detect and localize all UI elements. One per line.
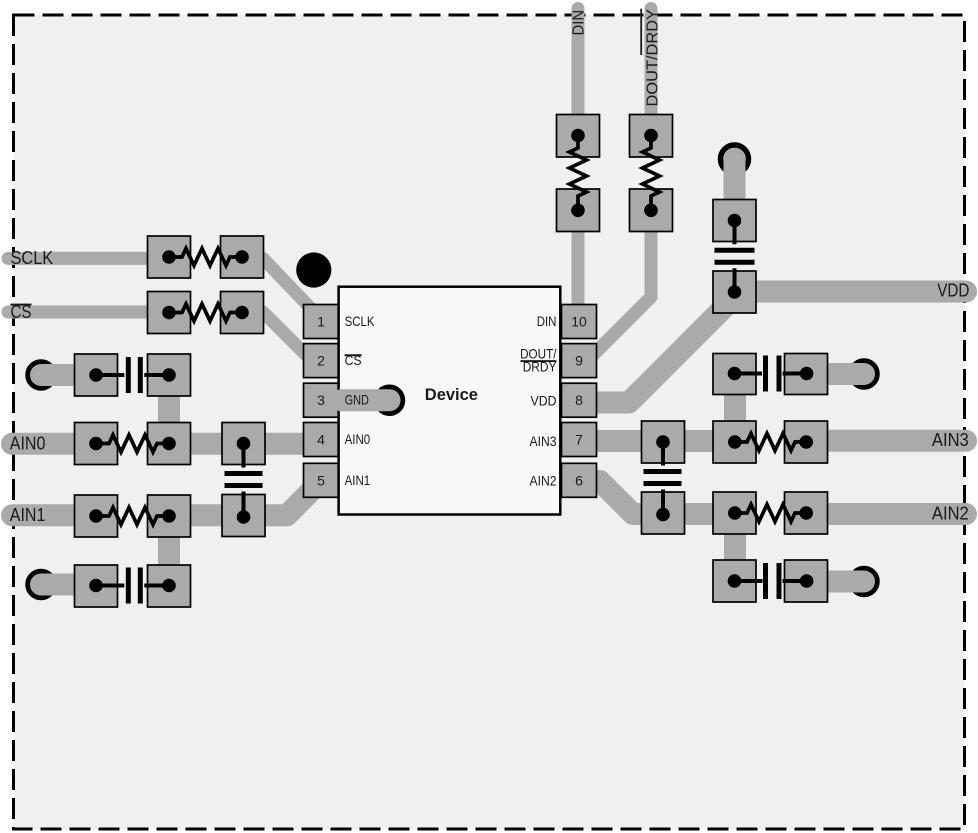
wire pin 7 to AIN3 resistor <box>580 430 740 452</box>
wire VDD out <box>735 281 967 303</box>
wire SCLK entry <box>8 252 170 265</box>
wire left cap1 to AIN0 resistor <box>158 375 180 444</box>
capacitor C2 pads (left bottom) <box>75 565 118 607</box>
wire pin 6 to AIN2 line <box>580 481 740 514</box>
via right-bottom <box>851 569 877 595</box>
svg-text:AIN3: AIN3 <box>530 433 557 449</box>
wire CS diagonal to pin 2 <box>242 312 318 367</box>
via VDD top <box>721 145 749 173</box>
resistor R2 terminal dots <box>162 306 249 320</box>
net labels <box>10 248 970 525</box>
wire AIN1 to pin 5 <box>169 485 317 515</box>
svg-text:3: 3 <box>317 392 325 408</box>
svg-text:VDD: VDD <box>531 392 557 408</box>
pin 2 pad <box>304 344 339 378</box>
pin 9 pad <box>562 344 597 378</box>
wire AIN2 resistor to right cap7 <box>724 514 746 581</box>
pin 8 pad <box>562 383 597 417</box>
wire AIN0 to pin 4 <box>169 433 321 455</box>
svg-text:10: 10 <box>571 314 587 330</box>
resistor R1 pads (SCLK) <box>148 236 191 278</box>
ground via (inside device) <box>377 387 403 413</box>
component pads <box>75 115 828 608</box>
svg-text:AIN2: AIN2 <box>530 472 557 488</box>
svg-text:DIN: DIN <box>537 313 557 329</box>
resistor R4 symbol <box>96 508 169 525</box>
svg-text:Device: Device <box>425 386 478 404</box>
wire AIN0 entry <box>12 433 97 455</box>
svg-text:AIN1: AIN1 <box>345 472 371 488</box>
capacitor C2 terminal dots <box>89 579 176 593</box>
capacitor C1 symbol leads <box>96 373 169 377</box>
capacitor C7 terminal dots <box>728 574 814 588</box>
resistor R4 pads (AIN1) <box>75 495 118 537</box>
svg-text:GND: GND <box>345 392 369 408</box>
capacitor C3 terminal dots <box>237 437 251 524</box>
svg-text:9: 9 <box>575 353 583 369</box>
svg-text:AIN1: AIN1 <box>10 505 46 525</box>
capacitor C6 pads (right middle vertical) <box>642 421 685 463</box>
svg-text:DOUT/DRDY: DOUT/DRDY <box>645 9 662 107</box>
pin numbers <box>317 314 587 489</box>
capacitor C6 symbol leads <box>661 442 665 515</box>
capacitor C4 pads (VDD) <box>713 200 756 242</box>
wire right cap7 to via <box>806 571 864 593</box>
device pin pads <box>304 305 597 498</box>
pin 1 indicator dot <box>296 252 331 287</box>
capacitor C3 symbol leads <box>242 444 246 518</box>
resistor R8 pads (AIN2) <box>713 492 756 534</box>
wire VDD via to cap <box>724 159 746 221</box>
via right-top <box>851 361 877 387</box>
via left-bottom <box>28 572 54 598</box>
device U1 body <box>339 287 561 515</box>
wire AIN1 entry <box>12 504 97 526</box>
svg-text:7: 7 <box>575 432 583 448</box>
capacitor C7 pads (right bottom) <box>713 560 756 602</box>
capacitor C7 plates <box>766 563 780 599</box>
wire GND <box>341 389 390 411</box>
pin 5 pad <box>304 463 339 497</box>
svg-text:AIN2: AIN2 <box>932 504 969 524</box>
traces <box>8 9 966 586</box>
resistor R7 symbol <box>735 434 806 451</box>
resistor R5 pads (DIN) <box>557 115 600 158</box>
svg-text:6: 6 <box>575 472 583 488</box>
svg-text:AIN3: AIN3 <box>932 430 969 450</box>
via left-top <box>28 362 54 388</box>
capacitor C2 plates <box>128 568 140 604</box>
resistor R3 terminal dots <box>89 437 176 451</box>
svg-text:4: 4 <box>317 432 325 448</box>
capacitor C5 terminal dots <box>728 367 814 381</box>
capacitor C3 plates <box>225 474 263 486</box>
wire CS entry <box>8 306 170 319</box>
resistor R1 terminal dots <box>162 250 249 264</box>
svg-text:8: 8 <box>575 392 583 408</box>
resistor R8 symbol <box>735 505 806 522</box>
pin 6 pad <box>562 463 597 497</box>
svg-text:SCLK: SCLK <box>345 313 376 329</box>
wire DIN to pin 10 <box>572 208 585 310</box>
pin 1 pad <box>304 305 339 339</box>
resistor R6 symbol <box>643 136 660 211</box>
capacitor C5 plates <box>766 356 780 392</box>
pin 10 pad <box>562 305 597 339</box>
pin names <box>345 313 376 488</box>
wire right cap5 to via <box>806 363 864 385</box>
resistor R5 terminal dots <box>571 129 585 217</box>
svg-text:5: 5 <box>317 472 325 488</box>
wire AIN2 out <box>800 503 966 525</box>
resistor R2 pads (CS) <box>148 292 191 334</box>
capacitor C5 pads (right top) <box>713 354 756 395</box>
resistor R8 terminal dots <box>728 506 813 520</box>
wire AIN3 out <box>800 430 966 452</box>
wire DOUT to pin 9 <box>592 208 651 356</box>
resistor R7 terminal dots <box>728 435 813 449</box>
wire left via2 to cap2 <box>41 574 97 596</box>
capacitor C6 terminal dots <box>656 435 670 521</box>
resistor R1 symbol <box>169 249 242 266</box>
capacitor C7 symbol leads <box>735 579 807 583</box>
svg-text:1: 1 <box>317 314 325 330</box>
wire left via1 to cap1 <box>41 364 97 386</box>
resistor R3 pads (AIN0) <box>75 423 118 465</box>
svg-text:SCLK: SCLK <box>11 248 54 268</box>
pin 7 pad <box>562 423 597 457</box>
resistor R4 terminal dots <box>89 509 176 523</box>
wire SCLK diagonal to pin 1 <box>242 258 320 318</box>
capacitor C5 symbol leads <box>735 372 807 376</box>
capacitor C4 plates <box>715 250 755 262</box>
capacitor C3 pads (left middle vertical) <box>222 423 265 465</box>
capacitor C1 plates <box>128 357 140 393</box>
resistor R3 symbol <box>96 435 169 452</box>
wire DOUT top <box>645 9 658 141</box>
capacitor C1 pads (left top) <box>75 354 118 396</box>
capacitor C4 terminal dots <box>728 214 742 299</box>
wire AIN1 resistor to left cap2 <box>158 515 180 586</box>
component symbols <box>96 136 806 525</box>
resistor R6 terminal dots <box>644 129 658 217</box>
svg-text:AIN0: AIN0 <box>10 434 46 454</box>
svg-text:AIN0: AIN0 <box>345 431 371 447</box>
capacitor C4 symbol leads <box>733 221 737 293</box>
capacitor C6 plates <box>644 472 682 484</box>
wire right cap5 to AIN3 resistor <box>724 374 746 442</box>
wire pin 8 to VDD cap <box>580 297 735 403</box>
svg-text:DIN: DIN <box>571 10 588 36</box>
pin 4 pad <box>304 423 339 457</box>
capacitor C1 terminal dots <box>89 368 176 382</box>
wire DIN top <box>572 9 585 141</box>
resistor R6 pads (DOUT) <box>630 115 673 158</box>
resistor R7 pads (AIN3) <box>713 421 756 463</box>
capacitor C2 symbol leads <box>96 584 169 588</box>
resistor R2 symbol <box>169 304 242 321</box>
resistor R5 symbol <box>570 136 587 211</box>
pin 3 pad <box>304 383 339 417</box>
svg-text:VDD: VDD <box>937 281 969 301</box>
svg-text:2: 2 <box>317 353 325 369</box>
